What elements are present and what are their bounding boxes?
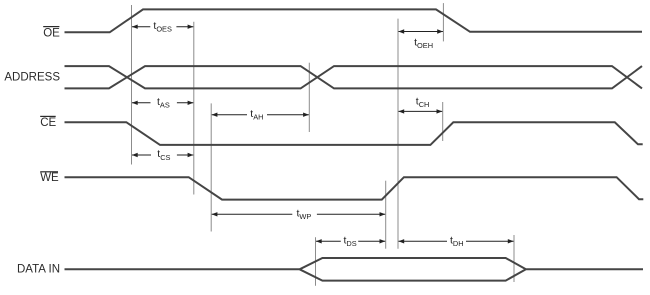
guide line G1 at OE rising edge [131,5,133,165]
tick T2 at CE rising edge [442,102,444,141]
dimension arrow tOES [132,20,194,34]
waveform WE [65,177,644,199]
guide line G5 at WE rising edge [385,181,387,249]
guide line G3 start of hold interval [210,103,212,231]
guide line G4 end of address hold [308,63,310,132]
waveform DATA IN valid-data eye [65,258,644,281]
svg-text:WE: WE [40,172,59,184]
waveform CE [65,122,643,145]
waveform ADDRESS bus line B [65,66,643,88]
dimension arrow tAH [212,108,309,122]
dimension arrow tDH [398,235,513,249]
svg-text:ADDRESS: ADDRESS [4,72,60,84]
svg-text:DATA IN: DATA IN [17,264,60,276]
guide line G6 reference at WE high [397,19,399,249]
dimension arrow tCH [398,96,442,114]
tick T3 at data-valid start [315,237,317,286]
waveform ADDRESS bus line A [65,66,643,88]
dimension arrow tCS [132,148,194,162]
signal label OE (active-low overline) [43,26,60,39]
waveform OE [65,9,643,32]
signal label WE (active-low overline) [40,171,59,184]
tick T4 at data-valid end [513,235,515,282]
dimension arrow tWP [212,208,386,222]
dimension arrow tDS [316,235,385,249]
svg-text:CE: CE [40,117,56,129]
tick T1 at OE falling edge [442,3,444,41]
signal label CE (active-low overline) [40,116,56,129]
guide line G2 end of setup interval [193,22,195,195]
svg-text:OE: OE [43,27,60,39]
dimension arrow tAS [132,96,194,110]
dimension arrow tOEH [398,29,443,50]
